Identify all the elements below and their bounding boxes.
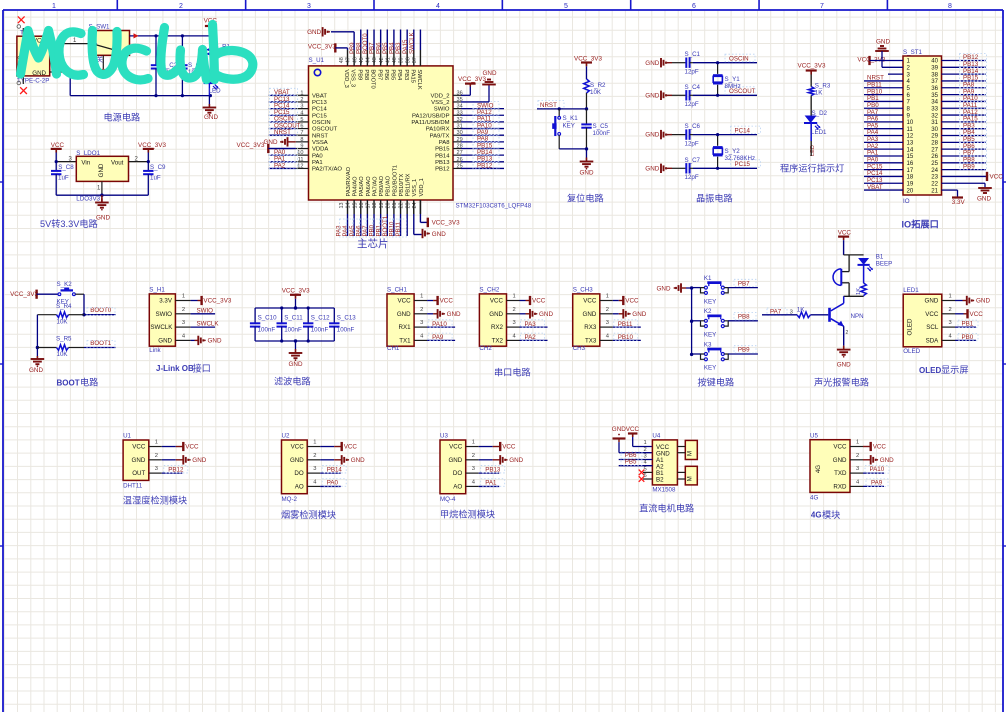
svg-text:SWIO: SWIO: [197, 307, 214, 314]
svg-text:47: 47: [346, 57, 352, 63]
capacitor S_C7 12pF: [672, 163, 693, 173]
svg-text:3: 3: [644, 453, 647, 459]
svg-text:VCC: VCC: [532, 298, 546, 305]
header pin numbers: [907, 58, 939, 195]
caption DC motor circuit: [639, 503, 694, 514]
svg-text:17: 17: [366, 203, 372, 209]
svg-text:S_K1: S_K1: [563, 115, 579, 122]
svg-text:S_ST1: S_ST1: [903, 49, 922, 56]
caption crystal circuit: [696, 193, 733, 204]
svg-text:PB14: PB14: [327, 466, 343, 473]
svg-text:GND: GND: [632, 311, 646, 318]
wire U5 pin4 RXD: [850, 479, 884, 486]
svg-text:1: 1: [155, 440, 158, 446]
svg-text:PA2/TX/AO: PA2/TX/AO: [312, 167, 342, 173]
svg-text:S_R3: S_R3: [815, 83, 831, 90]
caption alarm circuit: [814, 376, 869, 387]
connector S_CH1 body: [387, 287, 414, 353]
caption 烟雾检测模块: [281, 509, 336, 520]
wire OLED pin3 SCL: [942, 320, 976, 327]
svg-text:VCC: VCC: [873, 444, 887, 451]
wire K2 to net: [728, 320, 758, 322]
ground GND U1: [183, 455, 206, 464]
svg-text:LED: LED: [209, 88, 222, 95]
svg-text:32: 32: [457, 117, 463, 123]
net label OSCOUT: [725, 87, 756, 95]
wire crystal row OSCOUT: [693, 94, 757, 96]
mcu pin names top row: [343, 69, 422, 89]
svg-text:显示屏: 显示屏: [941, 365, 969, 375]
wire key bus to K1: [692, 287, 701, 289]
svg-text:GND: GND: [645, 165, 659, 172]
motor connector M1: [677, 440, 697, 459]
svg-text:25: 25: [457, 163, 463, 169]
LED D3 alarm: [858, 258, 874, 283]
wire U3 pin1 to VCC: [466, 440, 500, 447]
resistor S_R4 10K: [37, 303, 84, 326]
svg-text:SCL: SCL: [926, 324, 939, 331]
ground GND jlink: [198, 336, 222, 345]
wire filter to gnd: [295, 341, 297, 349]
capacitor S_C9 1uF: [143, 162, 166, 196]
svg-text:IO拓展口: IO拓展口: [902, 219, 939, 230]
wire U2 pin3 net PB14: [307, 466, 341, 473]
pushbutton K1 KEY: [701, 275, 729, 305]
svg-text:KEY: KEY: [704, 332, 716, 339]
svg-text:2: 2: [313, 453, 316, 459]
capacitor S_C13 100nF: [329, 308, 356, 341]
wire VSS_1 to GND bottom: [414, 200, 422, 235]
svg-text:4G: 4G: [815, 465, 822, 473]
svg-text:PA0: PA0: [312, 153, 323, 159]
svg-text:VCC_3V3: VCC_3V3: [798, 62, 826, 69]
svg-text:1: 1: [52, 3, 56, 10]
svg-text:3: 3: [472, 466, 475, 472]
mcu pin names bottom row: [346, 165, 425, 197]
power port VCC 4G: [871, 442, 887, 451]
regulator S_LDO1: [76, 150, 128, 202]
svg-text:PC13: PC13: [312, 100, 327, 106]
left bus wire boot: [36, 315, 39, 356]
power port VCC_3V3 LDO out: [138, 142, 166, 162]
svg-text:GND: GND: [447, 311, 461, 318]
svg-text:38: 38: [405, 57, 411, 63]
svg-text:OLED: OLED: [903, 348, 920, 355]
svg-text:3: 3: [856, 466, 859, 472]
svg-text:2: 2: [606, 307, 609, 313]
svg-text:AO: AO: [453, 484, 462, 491]
svg-text:NRST: NRST: [312, 133, 328, 139]
capacitor S_C5 100nF: [581, 109, 610, 149]
power port VCC_3V3 jlink: [202, 296, 232, 305]
power port VCC alarm: [838, 230, 852, 255]
caption BOOT circuit: [57, 377, 99, 388]
svg-text:GND: GND: [483, 70, 497, 77]
svg-text:滤波电路: 滤波电路: [274, 375, 311, 386]
svg-text:K1: K1: [704, 275, 712, 282]
svg-text:PA9/TX: PA9/TX: [430, 133, 450, 139]
caption 5V to 3.3V: [40, 218, 98, 229]
wire K1 to net: [728, 287, 758, 289]
svg-text:MX1508: MX1508: [652, 486, 676, 493]
net label PB0: [958, 333, 978, 341]
ground GND motor: [612, 426, 626, 442]
net label PA2: [521, 333, 545, 341]
svg-text:声光报警电路: 声光报警电路: [814, 376, 869, 387]
svg-text:GND: GND: [880, 457, 894, 464]
capacitor S_C4 12pF: [672, 90, 693, 100]
ground GND keys: [657, 283, 692, 292]
svg-text:PA5/AO: PA5/AO: [359, 176, 365, 197]
svg-text:S_K2: S_K2: [57, 281, 73, 288]
caption OLED display: [919, 365, 969, 375]
svg-text:GND: GND: [612, 426, 626, 433]
svg-text:NRST: NRST: [540, 102, 557, 109]
wire VCC to U4 pin1: [633, 437, 653, 447]
svg-text:S_C4: S_C4: [685, 84, 701, 91]
svg-text:3: 3: [606, 320, 609, 326]
svg-text:1: 1: [472, 440, 475, 446]
svg-text:PA7/AO: PA7/AO: [372, 176, 378, 197]
net label BOOT1: [87, 340, 115, 348]
svg-text:RX2: RX2: [491, 324, 504, 331]
net label LED rotated: [810, 141, 816, 156]
net label PB5: [621, 458, 642, 465]
svg-text:10K: 10K: [57, 318, 69, 325]
svg-text:RX1: RX1: [399, 324, 412, 331]
svg-text:VCC: VCC: [970, 311, 984, 318]
svg-text:3: 3: [307, 3, 311, 10]
wire U2 pin4 net PA0: [307, 479, 341, 486]
header left wires and net labels: [864, 75, 903, 191]
svg-text:100nF: 100nF: [258, 326, 276, 333]
wire crystal row OSCIN: [693, 62, 757, 64]
svg-text:CH2: CH2: [479, 345, 492, 352]
svg-text:电源电路: 电源电路: [104, 112, 141, 123]
svg-text:PB6: PB6: [383, 69, 389, 80]
svg-text:GND: GND: [583, 311, 597, 318]
svg-text:PB5: PB5: [625, 458, 637, 465]
svg-text:BOOT0: BOOT0: [90, 307, 112, 314]
key bus vertical wire: [690, 286, 693, 356]
svg-text:2: 2: [420, 307, 423, 313]
alarm top node wire: [844, 254, 864, 256]
svg-text:23: 23: [405, 203, 411, 209]
caption filter circuit: [274, 375, 311, 386]
svg-text:GND: GND: [290, 457, 304, 464]
wire S_CH1 pin1 to VCC: [414, 294, 437, 301]
resistor S_R1: [208, 36, 231, 77]
svg-text:VSS_1: VSS_1: [412, 179, 418, 197]
svg-text:VBAT: VBAT: [312, 93, 327, 99]
wire H1 pin1 to VCC_3V3: [175, 294, 200, 301]
svg-text:PB0: PB0: [962, 334, 974, 341]
svg-text:PA1: PA1: [485, 480, 497, 487]
wire U2 pin1 to VCC: [307, 440, 341, 447]
module U3 body: [440, 433, 466, 503]
svg-text:GND: GND: [192, 457, 206, 464]
power port VCC oled: [968, 309, 984, 318]
svg-text:Link: Link: [149, 347, 161, 354]
wire S_CH3 pin4: [600, 333, 641, 340]
power port VCC_3V3 at mcu VDDA pin: [237, 142, 296, 153]
svg-text:2: 2: [155, 453, 158, 459]
power port VCC motor: [626, 426, 640, 437]
transistor Q1 NPN: [830, 296, 864, 336]
svg-text:RX3: RX3: [584, 324, 597, 331]
svg-text:4G: 4G: [810, 495, 818, 502]
svg-text:PB1: PB1: [962, 321, 974, 328]
capacitor S_C3 10uF: [177, 36, 204, 96]
resistor S_R2 10K: [584, 79, 606, 109]
caption power circuit: [104, 112, 141, 123]
ground GND crystal row PC14: [645, 130, 672, 139]
svg-text:VCC: VCC: [626, 426, 640, 433]
svg-text:39: 39: [399, 57, 405, 63]
svg-text:GND: GND: [925, 298, 939, 305]
net label PA7: [767, 308, 787, 316]
resistor S_R3 1K: [808, 83, 830, 116]
svg-text:4: 4: [300, 110, 303, 116]
svg-text:GND: GND: [539, 311, 553, 318]
net label PA0: [322, 479, 346, 487]
svg-text:OUT: OUT: [132, 470, 145, 477]
svg-text:41: 41: [385, 57, 391, 63]
ground GND crystal row OSCIN: [645, 58, 672, 67]
wire S_CH2 pin4: [507, 333, 548, 340]
module U5 4G body: [810, 433, 850, 502]
resistor base 1K: [797, 307, 811, 318]
svg-text:PA3/RX/AO: PA3/RX/AO: [346, 166, 352, 196]
svg-text:GND: GND: [351, 457, 365, 464]
svg-text:12pF: 12pF: [685, 174, 699, 181]
svg-text:PB12: PB12: [435, 167, 449, 173]
net label PA1: [481, 479, 505, 487]
svg-text:S_C7: S_C7: [685, 157, 701, 164]
ground GND S_CH1: [438, 309, 461, 318]
wire S_CH3 pin3: [600, 320, 641, 327]
svg-text:VCC: VCC: [291, 444, 305, 451]
svg-text:BOOT0: BOOT0: [370, 69, 376, 88]
svg-text:12pF: 12pF: [685, 101, 699, 108]
power port VCC S_CH1: [438, 296, 454, 305]
filter top rail: [255, 306, 334, 309]
svg-text:31: 31: [457, 124, 463, 130]
bottom rail LDO: [56, 194, 148, 197]
wire crystal row PC14: [693, 134, 757, 136]
pushbutton S_K1 KEY: [552, 109, 578, 149]
svg-text:SWCLK: SWCLK: [416, 69, 422, 89]
svg-text:2: 2: [644, 447, 647, 453]
ground GND power circuit: [203, 104, 219, 121]
mcu top pin wires and numbers: [339, 30, 420, 66]
svg-text:U2: U2: [282, 433, 290, 440]
svg-text:S_R5: S_R5: [56, 336, 72, 343]
bottom rail wire: [70, 94, 212, 97]
svg-text:100nF: 100nF: [311, 326, 329, 333]
net label PB8: [734, 313, 756, 321]
svg-text:100nF: 100nF: [284, 326, 302, 333]
svg-text:S_C8: S_C8: [58, 164, 74, 171]
svg-text:MQ-2: MQ-2: [282, 496, 298, 503]
svg-text:20: 20: [907, 187, 914, 194]
svg-text:GND: GND: [132, 457, 146, 464]
wire PB5 to U4 pin4 A2: [619, 460, 653, 466]
switch bottom pin stubs: [102, 55, 125, 72]
svg-text:KEY: KEY: [563, 122, 575, 129]
wire S_CH2 pin1 to VCC: [507, 294, 530, 301]
caption program run indicator: [780, 163, 844, 174]
wire U3 pin3 net PB13: [466, 466, 500, 473]
power port VCC_3V3 top of mcu: [308, 43, 348, 52]
svg-text:PB4: PB4: [396, 69, 402, 80]
svg-text:3: 3: [155, 466, 158, 472]
svg-text:1: 1: [949, 294, 952, 300]
wire VDD_1 to VCC_3V3 bottom: [420, 200, 427, 222]
alarm bottom node wire: [844, 295, 864, 297]
svg-text:GND: GND: [976, 298, 990, 305]
svg-text:S_C9: S_C9: [150, 164, 166, 171]
svg-text:主芯片: 主芯片: [357, 237, 389, 250]
ground GND oled: [967, 296, 991, 305]
svg-text:GND: GND: [837, 361, 851, 368]
svg-text:OLED: OLED: [919, 366, 941, 375]
wire BOOT0 net: [84, 314, 116, 316]
net label PB7: [734, 279, 756, 287]
svg-text:3: 3: [300, 104, 303, 110]
svg-text:STM32F103C8T6_LQFP48: STM32F103C8T6_LQFP48: [456, 203, 532, 210]
svg-text:GND: GND: [645, 60, 659, 67]
net label PA9 4G: [866, 479, 888, 487]
svg-text:1: 1: [420, 294, 423, 300]
wire emitter to gnd: [843, 326, 845, 345]
net label PA10: [428, 320, 452, 328]
svg-text:GND: GND: [96, 215, 110, 222]
svg-text:GND: GND: [29, 367, 43, 374]
power port VCC S_CH3: [623, 296, 639, 305]
power port VCC S_CH2: [530, 296, 546, 305]
net label PA9: [428, 333, 452, 341]
svg-text:PB3: PB3: [403, 69, 409, 80]
svg-text:22: 22: [399, 203, 405, 209]
svg-text:18: 18: [372, 203, 378, 209]
svg-text:晶振电路: 晶振电路: [696, 193, 733, 204]
svg-text:2: 2: [472, 453, 475, 459]
ground GND alarm: [837, 346, 851, 369]
svg-text:GND: GND: [289, 361, 303, 368]
motor connector M2: [677, 466, 697, 485]
svg-text:GND: GND: [264, 139, 278, 146]
ground GND LDO: [95, 195, 110, 221]
svg-text:VCC: VCC: [625, 298, 639, 305]
svg-text:S_CH2: S_CH2: [479, 287, 500, 294]
net label BOOT0: [87, 307, 115, 315]
svg-text:PB0/AO: PB0/AO: [379, 175, 385, 196]
svg-text:15: 15: [352, 203, 358, 209]
svg-text:3: 3: [513, 320, 516, 326]
ground GND boot: [29, 356, 44, 374]
no-connect U4 pin5 B1: [639, 466, 653, 475]
module U2 body: [282, 433, 308, 503]
svg-text:42: 42: [379, 57, 385, 63]
svg-text:VCC: VCC: [449, 444, 463, 451]
net label SWIO: [197, 307, 214, 314]
connector T1 TYPE-C-2P: [17, 30, 50, 85]
svg-text:PB12: PB12: [168, 466, 184, 473]
svg-text:PB2/BOOT1: PB2/BOOT1: [392, 165, 398, 197]
svg-text:VCC: VCC: [185, 444, 199, 451]
svg-text:GND: GND: [580, 170, 594, 177]
svg-text:OSCIN: OSCIN: [312, 120, 331, 126]
svg-text:VCC: VCC: [990, 173, 1004, 180]
mcu pin names left column: [312, 93, 342, 172]
svg-text:PA2: PA2: [274, 162, 286, 169]
header S_ST1 body: [903, 49, 942, 205]
svg-text:S_C12: S_C12: [311, 315, 330, 322]
svg-text:PB11/RX: PB11/RX: [406, 173, 412, 196]
capacitor S_C2 100nF: [151, 36, 180, 96]
ground GND U3: [500, 455, 523, 464]
svg-text:SWIO: SWIO: [156, 311, 173, 318]
svg-text:24: 24: [412, 203, 418, 209]
svg-text:S_C10: S_C10: [258, 315, 277, 322]
svg-text:模块: 模块: [822, 509, 840, 520]
buzzer B1 BEEP: [833, 254, 892, 297]
svg-text:12pF: 12pF: [685, 140, 699, 147]
wire S_CH1 pin4: [414, 333, 455, 340]
svg-text:S_R2: S_R2: [590, 82, 606, 89]
svg-text:VCC: VCC: [344, 444, 358, 451]
svg-text:1: 1: [644, 440, 647, 446]
net label PB1: [958, 320, 978, 328]
svg-text:U1: U1: [123, 433, 131, 440]
svg-text:PB9: PB9: [963, 163, 975, 170]
svg-text:PB11: PB11: [395, 221, 402, 236]
wire U3 pin2 to GND: [466, 453, 500, 460]
filter bottom rail: [255, 339, 334, 342]
svg-text:Vin: Vin: [81, 159, 90, 166]
zone ticks top: [117, 0, 887, 10]
svg-text:PA12/USB/DP: PA12/USB/DP: [412, 113, 450, 119]
wire H1 pin2 SWIO: [175, 307, 215, 314]
svg-text:SWCLK: SWCLK: [408, 32, 415, 54]
svg-text:VCC_3V3: VCC_3V3: [10, 291, 38, 298]
zone numbers: [52, 3, 952, 10]
net label PB11: [614, 320, 638, 328]
svg-text:VBAT: VBAT: [867, 184, 883, 191]
svg-text:7: 7: [300, 130, 303, 136]
no-connect U4 pin6 B2: [639, 473, 653, 482]
svg-text:S_CH3: S_CH3: [573, 287, 594, 294]
svg-text:S_Y1: S_Y1: [725, 76, 741, 83]
svg-text:OSCOUT: OSCOUT: [312, 127, 338, 133]
svg-text:S_U1: S_U1: [309, 57, 325, 64]
net label SWCLK: [197, 321, 220, 328]
svg-text:PC15: PC15: [312, 113, 327, 119]
svg-text:J-Link OB: J-Link OB: [156, 364, 194, 373]
svg-text:GND: GND: [977, 196, 991, 203]
svg-text:1: 1: [313, 440, 316, 446]
svg-text:PB13: PB13: [435, 160, 450, 166]
pushbutton K2 KEY: [701, 308, 729, 338]
svg-text:U4: U4: [652, 433, 660, 440]
wire OLED pin2 to VCC: [942, 307, 967, 314]
no-connect bottom of T1: [17, 76, 27, 94]
power port VCC_3V3 reset: [574, 56, 602, 80]
svg-text:PA4/AO: PA4/AO: [353, 176, 359, 197]
svg-text:33: 33: [457, 110, 463, 116]
svg-text:16: 16: [359, 203, 365, 209]
